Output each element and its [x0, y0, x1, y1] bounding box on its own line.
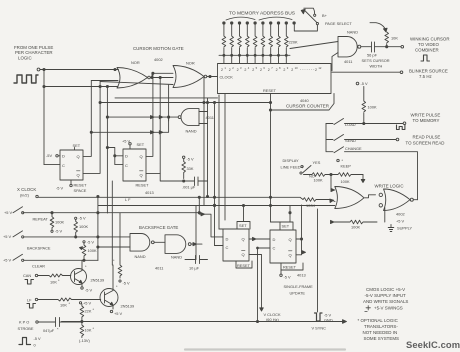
- resistor 10K lower: [79, 323, 95, 343]
- svg-text:2: 2: [221, 68, 223, 72]
- svg-text:100K: 100K: [351, 225, 360, 230]
- flip-flop FF3: [223, 222, 252, 269]
- svg-text:2: 2: [237, 68, 239, 72]
- svg-text:-5 V: -5 V: [87, 240, 95, 245]
- svg-text:2N5139: 2N5139: [91, 278, 105, 283]
- svg-text:4002: 4002: [154, 57, 163, 62]
- node KPO STROBE: [18, 320, 39, 332]
- svg-text:B+: B+: [322, 13, 328, 18]
- switch: display line feed yes/no: [281, 158, 321, 179]
- svg-text:(in/2): (in/2): [20, 193, 30, 198]
- svg-text:RESET: RESET: [136, 183, 150, 188]
- wire: V clock risers: [249, 255, 262, 309]
- svg-text:.001 µF: .001 µF: [182, 185, 196, 190]
- svg-text:NOR: NOR: [131, 60, 140, 65]
- svg-text:2N5139: 2N5139: [121, 304, 135, 309]
- svg-text:2: 2: [291, 68, 293, 72]
- svg-text:56 pF: 56 pF: [367, 53, 378, 58]
- svg-text:-5 V: -5 V: [55, 229, 63, 234]
- capacitor .001uF: [160, 173, 207, 189]
- capacitor .047uF: [38, 318, 82, 334]
- svg-text:+5 V: +5 V: [114, 311, 123, 316]
- wire: NAND inputs: [290, 42, 338, 71]
- svg-text:100K: 100K: [79, 224, 88, 229]
- resistor 100K (row2 pulldown): [74, 216, 89, 238]
- svg-text:TO VIDEO: TO VIDEO: [418, 42, 439, 47]
- svg-text:WRITE LOGIC: WRITE LOGIC: [375, 184, 404, 189]
- svg-text:2: 2: [283, 68, 285, 72]
- svg-text:* OPTIONAL LOGIC: * OPTIONAL LOGIC: [358, 318, 399, 323]
- svg-text:100K: 100K: [55, 220, 64, 225]
- wire: bus rail: [219, 54, 290, 56]
- svg-text:PER CHARACTER: PER CHARACTER: [15, 50, 53, 55]
- wire rows above FF3/FF4: [258, 222, 281, 322]
- supply note at gate: [388, 219, 412, 232]
- resistor 33K pulldown: [182, 156, 194, 178]
- svg-text:C: C: [226, 245, 229, 250]
- svg-text:-5 V: -5 V: [34, 336, 42, 341]
- svg-text:READ PULSE: READ PULSE: [413, 135, 441, 140]
- svg-text:4002: 4002: [396, 212, 405, 217]
- svg-text:WRITE PULSE: WRITE PULSE: [411, 113, 441, 118]
- NOR gate 2 (write logic 4002): [379, 189, 417, 217]
- svg-text:SET: SET: [137, 142, 145, 147]
- svg-text:NAND: NAND: [186, 129, 197, 134]
- svg-text:-5 V: -5 V: [187, 157, 195, 162]
- svg-text:10 µF: 10 µF: [189, 266, 200, 271]
- address bus: 10 lines with pull resistors: [222, 22, 295, 64]
- svg-text:SET: SET: [73, 143, 81, 148]
- label V CLOCK: [264, 312, 281, 322]
- svg-text:- - - - - - -: - - - - - - -: [300, 68, 315, 72]
- label: reset / 4013 below FF2: [125, 183, 154, 203]
- brace right: [259, 17, 292, 20]
- svg-text:CMOS LOGIC +5-V: CMOS LOGIC +5-V: [366, 287, 405, 292]
- switch CLEAR: [3, 254, 98, 268]
- label: 4040 cursor counter flap: [271, 94, 335, 111]
- OR gate 1 (write logic in): [335, 187, 376, 209]
- resistor pulldown x=120: [113, 213, 130, 286]
- wire rows mid page: [23, 197, 335, 259]
- svg-text:10: 10: [295, 66, 298, 70]
- svg-text:GND: GND: [324, 318, 333, 323]
- NAND gate A (backspace): [130, 234, 154, 260]
- svg-text:10K: 10K: [85, 328, 92, 333]
- svg-text:Q: Q: [140, 173, 143, 178]
- svg-text:KEEP: KEEP: [341, 164, 352, 169]
- svg-text:YES: YES: [313, 160, 321, 165]
- wire: G1 out to G2 (double): [151, 73, 174, 77]
- label 4011 / cap 10uF: [155, 256, 208, 271]
- svg-text:CAN: CAN: [23, 273, 31, 278]
- svg-text:TO SCREEN READ: TO SCREEN READ: [406, 141, 445, 146]
- scan smudge bottom: [185, 348, 345, 350]
- wires: NOR input rows: [44, 81, 173, 87]
- svg-text:DISPLAY: DISPLAY: [283, 158, 300, 163]
- svg-text:SOME SYSTEMS: SOME SYSTEMS: [364, 336, 400, 341]
- svg-text:WINKING CURSOR: WINKING CURSOR: [410, 37, 450, 42]
- node: read pulse to screen read: [406, 135, 445, 146]
- pulse glyph strobe: [19, 336, 41, 348]
- svg-text:4011: 4011: [155, 266, 163, 271]
- svg-text:TO MEMORY: TO MEMORY: [413, 118, 440, 123]
- svg-text:Q: Q: [140, 154, 143, 159]
- note: optional logic translators: [358, 318, 400, 341]
- svg-text:Q: Q: [77, 154, 80, 159]
- svg-text:-5 V: -5 V: [85, 288, 93, 293]
- svg-text:PAGE SELECT: PAGE SELECT: [325, 21, 352, 26]
- resistor 100K (lower write row): [331, 208, 385, 230]
- resistor 100K (repeat): [50, 212, 64, 234]
- vertical bus x=112: [107, 148, 123, 266]
- node: write pulse to memory: [397, 113, 441, 130]
- resistor 100K into OR1: [303, 198, 335, 208]
- svg-text:C: C: [273, 246, 276, 251]
- svg-text:7.5 Hz: 7.5 Hz: [419, 74, 432, 79]
- svg-text:CLOCK: CLOCK: [220, 75, 234, 80]
- svg-text:+5-V SWINGS: +5-V SWINGS: [374, 306, 403, 311]
- node: -5V / 4013 below FF4: [280, 270, 306, 280]
- note: cmos logic: [363, 287, 408, 311]
- svg-text:+5 V: +5 V: [4, 210, 13, 215]
- svg-text:4011: 4011: [206, 115, 214, 120]
- svg-text:CHANGE: CHANGE: [345, 146, 362, 151]
- svg-text:RESET: RESET: [283, 265, 297, 270]
- wire: counter reset feed: [270, 94, 272, 223]
- svg-text:NOT NEEDED IN: NOT NEEDED IN: [363, 330, 398, 335]
- svg-text:10K: 10K: [50, 280, 57, 285]
- svg-text:-5 V: -5 V: [79, 216, 87, 221]
- svg-text:D: D: [125, 154, 128, 159]
- svg-text:RESET: RESET: [237, 263, 251, 268]
- svg-text:STROBE: STROBE: [18, 326, 34, 331]
- flip-flop FF2: [122, 139, 146, 182]
- svg-text:-5 V: -5 V: [284, 275, 292, 280]
- svg-text:2: 2: [315, 68, 317, 72]
- svg-text:Q: Q: [289, 237, 292, 242]
- svg-text:SET: SET: [239, 223, 247, 228]
- svg-text:100K: 100K: [368, 105, 377, 110]
- wire: FF3 D/C feeds: [215, 206, 244, 246]
- svg-text:CLEAR: CLEAR: [32, 264, 45, 269]
- svg-text:D: D: [273, 237, 276, 242]
- svg-text:NAND: NAND: [171, 255, 182, 260]
- svg-text:REPEAT: REPEAT: [33, 217, 49, 222]
- svg-text:LF: LF: [27, 298, 32, 303]
- vertical risers right group: [204, 77, 225, 246]
- NOR gate G1: [117, 60, 150, 88]
- svg-text:WIDTH: WIDTH: [370, 64, 383, 69]
- svg-text:BLINKER SOURCE: BLINKER SOURCE: [409, 69, 448, 74]
- flip-flop FF4: [270, 222, 303, 270]
- node: reset space below FF1: [56, 180, 87, 193]
- svg-text:SINGLE-FRAME: SINGLE-FRAME: [284, 284, 314, 289]
- svg-text:D: D: [62, 154, 65, 159]
- switch CHANGE + bracket: [326, 124, 418, 200]
- wire rows upper mid: [100, 98, 270, 103]
- switch BACKSPACE: [3, 231, 130, 251]
- svg-text:BACKSPACE: BACKSPACE: [27, 246, 51, 251]
- svg-text:LOAD: LOAD: [345, 122, 356, 127]
- svg-text:AND WRITE SIGNALS: AND WRITE SIGNALS: [363, 299, 408, 304]
- svg-text:+5 V: +5 V: [122, 139, 131, 144]
- switch REPEAT: [4, 207, 48, 222]
- capacitor 56pF: [361, 42, 390, 69]
- svg-text:Q: Q: [289, 253, 292, 258]
- wires: NAND mid inputs: [91, 117, 178, 132]
- svg-text:NAND: NAND: [135, 254, 146, 259]
- node V SYNC: [312, 209, 333, 331]
- switch LOAD: [326, 119, 406, 128]
- svg-text:COMBINER: COMBINER: [415, 48, 439, 53]
- long bottom wire: [62, 320, 347, 324]
- svg-text:-5V: -5V: [46, 153, 52, 158]
- svg-text:BACKSPACE GATE: BACKSPACE GATE: [139, 225, 178, 230]
- svg-text:220K: 220K: [289, 40, 298, 45]
- svg-text:D: D: [226, 237, 229, 242]
- ground arrow (keep row): [361, 175, 365, 183]
- svg-text:RESET: RESET: [74, 183, 88, 188]
- flip-flop FF1: [44, 143, 83, 180]
- svg-text:12: 12: [318, 66, 321, 70]
- wire mesh: vertical risers mid group: [146, 73, 169, 173]
- svg-text:NAND: NAND: [347, 30, 358, 35]
- svg-text:Q: Q: [77, 173, 80, 178]
- NOR gate G2: [173, 61, 207, 88]
- svg-text:4011: 4011: [344, 59, 352, 64]
- svg-text:2: 2: [276, 68, 278, 72]
- svg-text:10K: 10K: [60, 303, 67, 308]
- resistor 100K (keep row right): [330, 173, 363, 184]
- label X CLOCK: [17, 187, 38, 198]
- svg-text:33K: 33K: [187, 166, 194, 171]
- svg-text:SUPPLY: SUPPLY: [397, 226, 412, 231]
- resistor 100K (keep row left): [312, 173, 331, 183]
- svg-text:Q: Q: [242, 252, 245, 257]
- svg-text:+5 V: +5 V: [83, 301, 92, 306]
- svg-text:NOR: NOR: [186, 61, 195, 66]
- svg-text:SEND: SEND: [345, 138, 356, 143]
- counter box 4040: [218, 64, 332, 94]
- svg-text:Q: Q: [242, 237, 245, 242]
- svg-text:RESET: RESET: [263, 88, 277, 93]
- brace left: [226, 17, 255, 20]
- switch: page select: [294, 8, 352, 31]
- wire: keep row to write-logic input: [331, 175, 335, 191]
- svg-text:4040: 4040: [300, 98, 309, 103]
- switch SEND: [326, 135, 399, 144]
- wire: input to NOR1: [40, 70, 119, 165]
- resistor 100K pullup at write pulse: [356, 81, 377, 124]
- svg-text:2: 2: [229, 68, 231, 72]
- svg-text:SET: SET: [282, 224, 290, 229]
- svg-text:TRANSLATORS-: TRANSLATORS-: [364, 324, 398, 329]
- potentiometer 10K: [370, 23, 398, 47]
- label: single-frame update: [284, 284, 314, 296]
- svg-text:TO MEMORY ADDRESS BUS: TO MEMORY ADDRESS BUS: [229, 11, 296, 17]
- transistor Q2 2N5139: [100, 265, 134, 316]
- svg-text:+5 V: +5 V: [3, 258, 12, 263]
- wire: G2 out to counter clock: [207, 76, 218, 78]
- svg-text:047µF: 047µF: [43, 328, 55, 333]
- NAND gate B (backspace): [154, 235, 202, 260]
- node KEEP: [337, 158, 351, 169]
- svg-text:2: 2: [252, 68, 254, 72]
- svg-text:(60 Hz): (60 Hz): [266, 317, 279, 322]
- svg-text:X CLOCK: X CLOCK: [17, 187, 36, 192]
- svg-text:LOGIC: LOGIC: [18, 56, 32, 61]
- resistor 22K: [79, 301, 94, 323]
- svg-text:10K: 10K: [391, 36, 398, 41]
- svg-text:100K: 100K: [314, 178, 323, 183]
- svg-text:2: 2: [244, 68, 246, 72]
- node: input from one-pulse-per-character logic: [14, 45, 53, 71]
- svg-text:-5 V: -5 V: [123, 281, 131, 286]
- svg-text:100K: 100K: [88, 248, 97, 253]
- wire: FF3 Q to FF4 D: [249, 237, 270, 240]
- svg-text:-5 V: -5 V: [361, 81, 369, 86]
- node CAN + resistor 10K: [23, 273, 71, 285]
- svg-text:100K: 100K: [306, 203, 315, 208]
- svg-text:SeekIC.com: SeekIC.com: [406, 339, 460, 350]
- waveform glyph (character clock): [14, 75, 38, 83]
- node LF + resistor 10K: [27, 298, 101, 309]
- svg-text:(-13V): (-13V): [79, 338, 91, 343]
- svg-text:CURSOR COUNTER: CURSOR COUNTER: [286, 104, 330, 109]
- NAND gate 4001 (mid): [178, 109, 214, 134]
- wire: FF4 outputs: [296, 205, 306, 255]
- resistor 100K (backspace pulldown): [80, 240, 97, 262]
- svg-text:100K: 100K: [341, 179, 350, 184]
- svg-text:-5 V: -5 V: [56, 186, 64, 191]
- svg-text:C: C: [62, 163, 65, 168]
- svg-text:SETS CURSOR: SETS CURSOR: [362, 58, 390, 63]
- svg-text:2: 2: [260, 68, 262, 72]
- svg-text:+5 V: +5 V: [396, 219, 405, 224]
- svg-text:C: C: [125, 163, 128, 168]
- svg-text:22K: 22K: [85, 309, 92, 314]
- svg-text:UPDATE: UPDATE: [290, 291, 306, 296]
- wire mesh: vertical risers left group: [83, 81, 107, 214]
- svg-text:CURSOR MOTION GATE: CURSOR MOTION GATE: [133, 46, 184, 51]
- svg-text:SPACE: SPACE: [74, 188, 87, 193]
- svg-text:2: 2: [268, 68, 270, 72]
- vertical bus x=98: [98, 197, 130, 261]
- NAND gate 4011 cursor width: [338, 30, 361, 65]
- node: blinker source: [332, 69, 448, 80]
- svg-text:-5-V SUPPLY INPUT: -5-V SUPPLY INPUT: [365, 293, 407, 298]
- transistor Q1 2N5139: [71, 260, 105, 292]
- svg-text:K P O: K P O: [19, 320, 29, 325]
- svg-text:4013: 4013: [297, 273, 306, 278]
- svg-text:V SYNC: V SYNC: [312, 326, 327, 331]
- svg-text:4013: 4013: [145, 190, 154, 195]
- svg-text:+5 V: +5 V: [3, 234, 12, 239]
- node: winking cursor output: [386, 37, 450, 62]
